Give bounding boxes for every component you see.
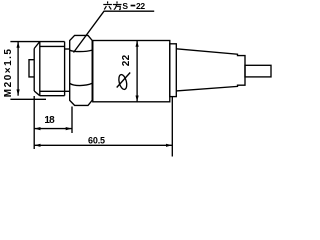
node: pressure port stub [29, 60, 34, 77]
wire: leader line from label to hex [74, 11, 155, 52]
wire: hex facet curve top [70, 50, 93, 52]
node: 18 arrow right [66, 127, 72, 130]
wire: 18/60.5 shared left extension line [33, 96, 35, 149]
wire: thread left end face [33, 49, 35, 92]
wire: thread chamfer boundary vertical [39, 42, 41, 96]
svg-text:18: 18 [44, 115, 55, 126]
svg-text:M20×1.5: M20×1.5 [3, 47, 14, 97]
node: phi symbol ellipse [117, 74, 128, 90]
node: hex nut outline [70, 35, 93, 105]
node: phi22 arrow up [136, 41, 139, 47]
wire: 18 dimension line [34, 128, 72, 130]
wire: 60.5 dimension line [34, 144, 172, 146]
wire: hex facet curve bottom [70, 83, 93, 85]
wire: 18 right extension line [71, 107, 73, 134]
wire: M20 dimension top extension line merged with thread OD top edge [10, 41, 64, 43]
node: 60.5 arrow left [34, 144, 40, 147]
node: label equals bar [131, 5, 136, 7]
node: 60.5 arrow right [166, 144, 172, 147]
wire: 60.5 right extension line [171, 97, 173, 157]
svg-text:60.5: 60.5 [88, 136, 105, 146]
wire: thread right end face [64, 42, 66, 96]
wire: M20 vertical dimension line [17, 42, 19, 96]
node: label char fang (square) [113, 1, 122, 9]
node: cable [245, 65, 271, 77]
node: 18 arrow left [34, 127, 40, 130]
node: cable boot tapered [176, 49, 245, 91]
svg-text:22: 22 [121, 54, 132, 66]
wire: M20 dimension bottom extension line [10, 98, 46, 100]
wire: phi22 dimension line [136, 41, 138, 102]
node: M20 dimension arrow up [17, 42, 20, 48]
wire: phi symbol slash [117, 73, 131, 88]
wire: thread minor diameter line bottom [40, 90, 70, 92]
wire: thread chamfer bottom diagonal [34, 91, 40, 96]
node: main cylindrical body [93, 41, 170, 102]
wire: thread minor diameter line top [40, 45, 65, 47]
wire: thread chamfer top diagonal [34, 42, 40, 49]
svg-text:22: 22 [136, 1, 145, 11]
node: phi22 arrow down [136, 96, 139, 102]
svg-text:S: S [122, 1, 128, 11]
node: label char liu (six) [103, 1, 112, 9]
wire: M20 dimension bottom extension line merged with thread OD bottom edge [40, 95, 65, 97]
node: rear step ring [170, 44, 177, 97]
node: M20 dimension arrow down [17, 89, 20, 95]
wire: neck top line [65, 48, 70, 50]
